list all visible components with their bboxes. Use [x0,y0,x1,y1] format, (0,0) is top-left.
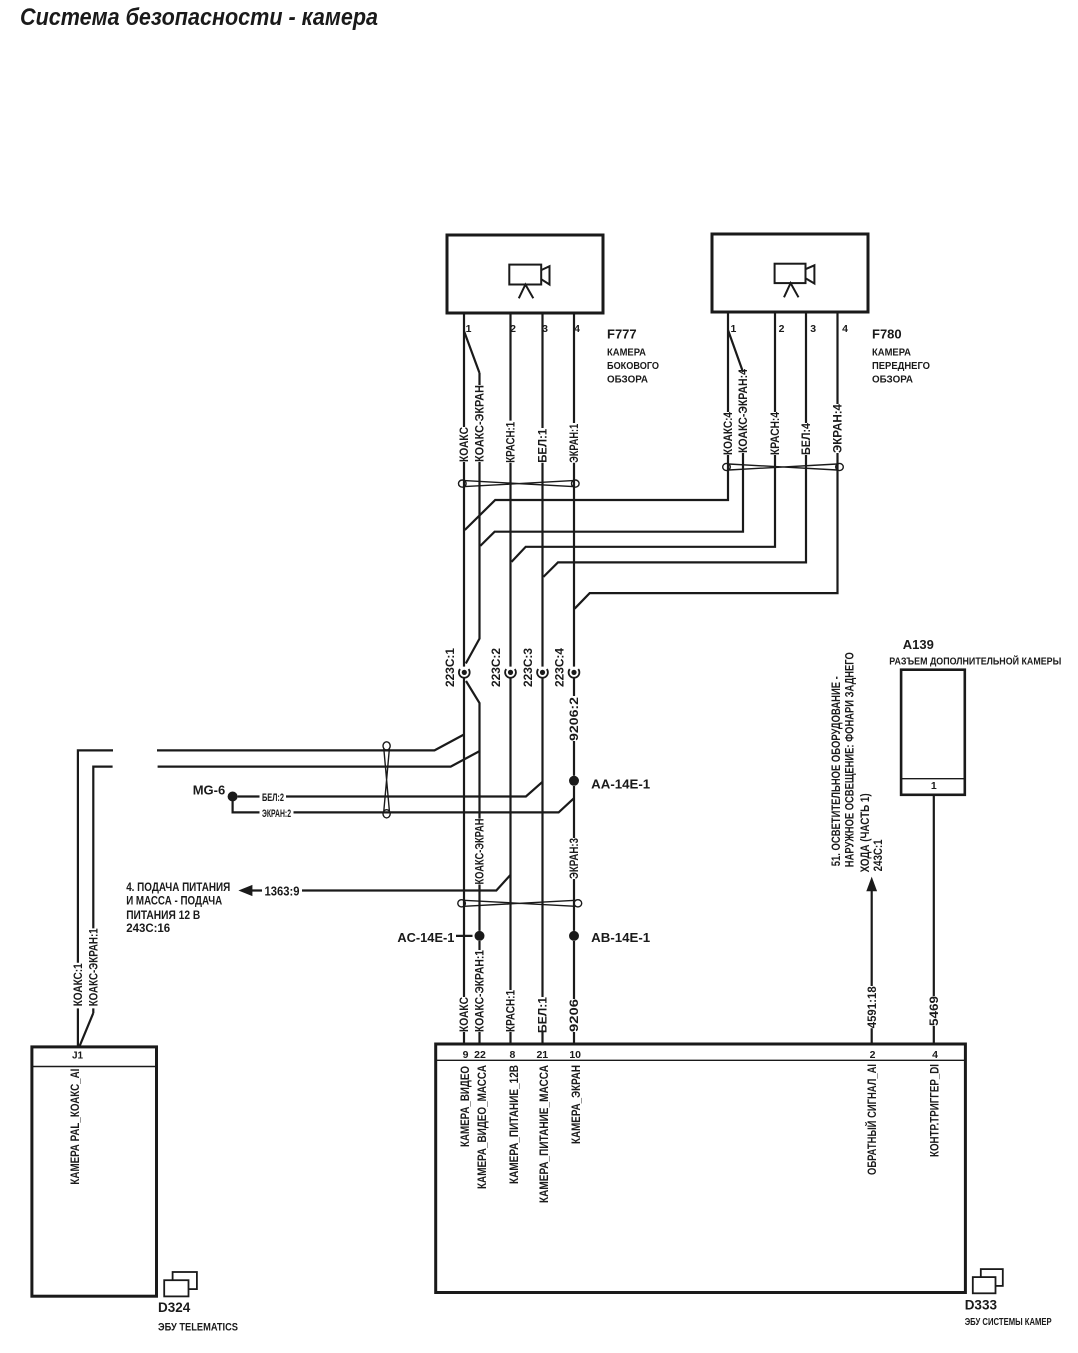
svg-text:И МАССА - ПОДАЧА: И МАССА - ПОДАЧА [126,896,222,908]
twisted pair symbol F777 [459,480,580,487]
svg-text:4: 4 [842,323,848,335]
svg-text:3: 3 [542,323,548,335]
svg-text:9: 9 [463,1049,469,1061]
svg-text:1: 1 [931,780,937,792]
svg-text:F780: F780 [872,327,902,342]
document icon D333 [973,1269,1003,1293]
svg-text:НАРУЖНОЕ ОСВЕЩЕНИЕ: ФОНАРИ ЗАД: НАРУЖНОЕ ОСВЕЩЕНИЕ: ФОНАРИ ЗАДНЕГО [844,652,856,867]
connector 223C:1 [459,669,470,678]
wire BEL:1 F777 pin3 [541,313,543,1044]
wire KOAKS-EKRAN:4 F780 [480,453,743,546]
svg-text:БЕЛ:1: БЕЛ:1 [538,428,550,463]
svg-text:КРАСН:1: КРАСН:1 [506,421,518,462]
splice AB-14E-1 [569,931,579,941]
wire BEL:2 [238,782,543,797]
svg-text:AC-14E-1: AC-14E-1 [397,930,454,945]
svg-text:9206: 9206 [569,999,581,1032]
svg-text:Система безопасности - камера: Система безопасности - камера [20,4,378,31]
svg-text:51. ОСВЕТИТЕЛЬНОЕ ОБОРУДОВАНИЕ: 51. ОСВЕТИТЕЛЬНОЕ ОБОРУДОВАНИЕ - [831,676,843,866]
svg-text:223C:3: 223C:3 [523,648,535,687]
svg-text:243С:1: 243С:1 [873,839,885,872]
svg-text:22: 22 [474,1049,486,1061]
svg-text:3: 3 [810,323,816,335]
svg-text:КАМЕРА PAL_КОАКС_AI: КАМЕРА PAL_КОАКС_AI [70,1069,82,1185]
svg-text:КОАКС:4: КОАКС:4 [723,411,735,455]
wire KOAKS F777 pin1 [463,313,465,1044]
svg-text:1: 1 [466,323,472,335]
svg-text:КОАКС-ЭКРАН:4: КОАКС-ЭКРАН:4 [738,368,750,453]
svg-text:ЭКРАН:4: ЭКРАН:4 [833,403,845,453]
svg-text:КОАКС: КОАКС [459,997,471,1032]
svg-text:ОБЗОРА: ОБЗОРА [607,374,648,385]
svg-text:ПИТАНИЯ 12 В: ПИТАНИЯ 12 В [126,910,200,922]
svg-text:КРАСН:1: КРАСН:1 [506,989,518,1032]
svg-text:MG-6: MG-6 [193,783,226,798]
svg-text:4. ПОДАЧА ПИТАНИЯ: 4. ПОДАЧА ПИТАНИЯ [126,882,230,894]
svg-text:КАМЕРА_ПИТАНИЕ_МАССА: КАМЕРА_ПИТАНИЕ_МАССА [539,1065,551,1203]
svg-text:ЭБУ СИСТЕМЫ КАМЕР: ЭБУ СИСТЕМЫ КАМЕР [965,1316,1052,1328]
svg-text:БЕЛ:4: БЕЛ:4 [801,422,813,455]
svg-text:ЭКРАН:2: ЭКРАН:2 [262,808,291,820]
vertical twisted pair symbol [383,742,390,818]
svg-text:2: 2 [870,1049,876,1061]
wire KOAKS-EKRAN:1 from J1 [80,751,481,1046]
svg-text:1363:9: 1363:9 [265,885,300,899]
wire KRASN:1 F777 pin2 [509,313,511,1044]
svg-text:A139: A139 [903,637,934,652]
svg-text:AB-14E-1: AB-14E-1 [591,930,650,945]
svg-text:ХОДА (ЧАСТЬ 1): ХОДА (ЧАСТЬ 1) [860,793,872,872]
svg-text:КАМЕРА_ЭКРАН: КАМЕРА_ЭКРАН [571,1065,583,1144]
svg-text:КАМЕРА: КАМЕРА [607,347,646,358]
wire 1363:9 power feed [251,875,511,891]
svg-text:9206:2: 9206:2 [569,697,581,741]
wire EKRAN:2 [233,798,574,812]
document icon D324 [164,1272,197,1296]
svg-text:J1: J1 [72,1051,84,1062]
svg-text:1: 1 [730,323,736,335]
wire KOAKS:1 from J1 [78,735,464,1047]
splice AA-14E-1 [569,776,579,786]
wire 4591:18 reverse signal [871,891,873,1044]
ECU D324 box [32,1047,157,1296]
svg-text:КАМЕРА: КАМЕРА [872,347,911,358]
svg-text:F777: F777 [607,327,637,342]
camera F777 icon [509,265,549,299]
arrow 51 lighting [866,877,877,892]
pin numbers D333 [463,1049,939,1061]
svg-text:4591:18: 4591:18 [867,986,879,1029]
wire KOAKS-EKRAN split from pin1 [464,331,480,1044]
svg-text:КОАКС-ЭКРАН:1: КОАКС-ЭКРАН:1 [475,949,487,1032]
svg-text:ЭКРАН:3: ЭКРАН:3 [569,838,581,879]
splice MG-6 [228,792,238,802]
svg-text:ЭБУ TELEMATICS: ЭБУ TELEMATICS [158,1322,238,1334]
connector 223C:4 [569,669,580,678]
arrow 1363:9 [238,885,252,896]
wire 5469 trigger [933,795,935,1044]
svg-text:4: 4 [574,323,580,335]
svg-text:БЕЛ:2: БЕЛ:2 [262,792,284,804]
wire KRASN:4 F780 pin2 [512,312,776,562]
camera F777 box [447,235,603,313]
svg-text:21: 21 [536,1049,548,1061]
svg-text:БОКОВОГО: БОКОВОГО [607,361,659,372]
wire EKRAN:1 F777 pin4 [573,313,575,1044]
svg-text:БЕЛ:1: БЕЛ:1 [538,996,550,1033]
camera F780 icon [775,264,815,298]
pin numbers F780 [730,323,848,335]
svg-text:КОАКС-ЭКРАН: КОАКС-ЭКРАН [475,819,487,885]
svg-text:4: 4 [932,1049,938,1061]
wire EKRAN:4 F780 pin4 [575,312,838,609]
splice AC-14E-1 [475,931,485,941]
svg-text:КАМЕРА_ВИДЕО: КАМЕРА_ВИДЕО [460,1066,472,1147]
svg-text:D324: D324 [158,1300,191,1315]
svg-text:ОБЗОРА: ОБЗОРА [872,374,913,385]
wire KOAKS:4 F780 pin1 [465,312,743,530]
connector 223C:3 [537,669,548,678]
connector 223C:2 [505,669,516,678]
svg-text:AA-14E-1: AA-14E-1 [591,777,650,792]
svg-text:223C:4: 223C:4 [555,647,567,687]
svg-text:223C:2: 223C:2 [491,648,503,687]
dash AC label [456,935,473,937]
ECU D333 box [436,1044,966,1293]
svg-text:D333: D333 [965,1297,998,1312]
svg-text:КОАКС: КОАКС [459,427,471,462]
svg-text:8: 8 [509,1049,515,1061]
svg-text:КОАКС-ЭКРАН:1: КОАКС-ЭКРАН:1 [89,928,101,1007]
twisted pair symbol lower [458,900,582,907]
svg-text:ОБРАТНЫЙ СИГНАЛ_AI: ОБРАТНЫЙ СИГНАЛ_AI [866,1064,879,1175]
svg-text:2: 2 [779,323,785,335]
svg-text:223C:1: 223C:1 [445,647,457,687]
svg-text:КРАСН:4: КРАСН:4 [770,411,782,455]
svg-text:КОАКС:1: КОАКС:1 [73,963,85,1007]
camera F780 box [712,234,868,312]
svg-text:5469: 5469 [929,996,941,1026]
svg-text:ЭКРАН:1: ЭКРАН:1 [569,423,581,462]
svg-text:243С:16: 243С:16 [126,923,170,935]
svg-text:КОАКС-ЭКРАН: КОАКС-ЭКРАН [475,385,487,462]
svg-text:10: 10 [569,1049,581,1061]
svg-text:2: 2 [510,323,516,335]
svg-text:КАМЕРА_ВИДЕО_МАССА: КАМЕРА_ВИДЕО_МАССА [477,1065,489,1189]
svg-text:ПЕРЕДНЕГО: ПЕРЕДНЕГО [872,361,930,372]
note power feed [126,882,230,935]
pin numbers F777 [466,323,581,335]
connector A139 box [901,670,965,795]
svg-text:КОНТР.ТРИГГЕР_DI: КОНТР.ТРИГГЕР_DI [930,1064,942,1157]
svg-text:РАЗЪЕМ ДОПОЛНИТЕЛЬНОЙ КАМЕРЫ: РАЗЪЕМ ДОПОЛНИТЕЛЬНОЙ КАМЕРЫ [889,655,1061,668]
twisted pair symbol F780 [723,463,844,470]
wire BEL:4 F780 pin3 [543,312,806,577]
svg-text:КАМЕРА_ПИТАНИЕ_12В: КАМЕРА_ПИТАНИЕ_12В [509,1065,521,1184]
